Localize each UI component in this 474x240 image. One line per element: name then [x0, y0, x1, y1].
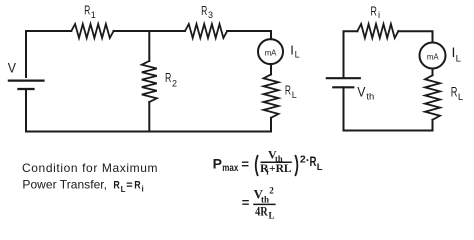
svg-text:th: th: [366, 92, 374, 103]
wire Vth negative to bottom: [343, 87, 345, 130]
svg-text:Condition for Maximum: Condition for Maximum: [22, 161, 158, 175]
svg-text:4R: 4R: [255, 204, 268, 218]
svg-text:V: V: [8, 61, 16, 76]
wire RL to bottom: [270, 118, 272, 132]
wire R3 to ammeter: [227, 31, 271, 39]
svg-text:=: =: [241, 157, 249, 172]
ammeter U2 circle: [420, 43, 446, 69]
formula open paren: [256, 155, 258, 176]
wire battery negative to bottom: [25, 89, 27, 132]
formula fraction 2 bar: [253, 203, 275, 205]
svg-text:R: R: [201, 4, 207, 18]
svg-text:L: L: [292, 90, 297, 100]
svg-text:i: i: [378, 10, 380, 21]
wire top-left from battery to R1: [26, 31, 71, 77]
svg-text:=: =: [126, 180, 132, 192]
svg-text:L: L: [317, 162, 323, 173]
svg-text:mA: mA: [265, 48, 277, 57]
formula fraction 1 bar: [261, 161, 292, 163]
battery V positive plate: [9, 79, 44, 81]
battery Vth negative plate: [333, 86, 353, 88]
wire node A to R2: [148, 31, 150, 61]
wire bottom right circuit: [344, 130, 433, 132]
svg-text:1: 1: [91, 10, 96, 20]
svg-text:R: R: [310, 153, 317, 169]
svg-text:L: L: [295, 50, 300, 60]
battery Vth positive plate: [327, 77, 360, 79]
svg-text:=: =: [242, 195, 250, 210]
wire ammeter to RL right: [432, 69, 434, 76]
svg-text:R: R: [285, 83, 291, 98]
svg-text:max: max: [222, 163, 238, 174]
wire R2 to bottom: [148, 102, 150, 132]
svg-text:P: P: [213, 155, 222, 171]
svg-text:th: th: [261, 195, 269, 205]
wire ammeter to RL: [270, 64, 272, 74]
wire Ri to ammeter right: [398, 31, 432, 42]
svg-text:mA: mA: [427, 52, 439, 61]
svg-text:L: L: [269, 210, 275, 220]
svg-text:L: L: [121, 185, 126, 194]
svg-text:2: 2: [172, 79, 177, 89]
resistor R2: [142, 61, 157, 102]
resistor RL right: [425, 75, 440, 120]
svg-text:2: 2: [269, 185, 274, 195]
svg-text:R: R: [451, 84, 458, 99]
svg-text:R: R: [134, 180, 140, 192]
svg-text:R: R: [165, 70, 171, 85]
battery V negative plate: [18, 88, 33, 90]
svg-text:R: R: [113, 180, 119, 192]
resistor Ri: [357, 24, 398, 38]
svg-text:L: L: [456, 54, 461, 65]
ammeter U1 circle: [258, 39, 283, 64]
svg-text:+RL: +RL: [269, 161, 292, 175]
formula close paren: [295, 155, 297, 176]
wire RL right to bottom: [432, 120, 434, 131]
wire R1 to R3 through node A: [114, 30, 185, 32]
wire top right circuit: Vth to Ri: [344, 31, 358, 77]
wire bottom left circuit: [26, 131, 271, 133]
svg-text:R: R: [84, 2, 90, 17]
resistor R3: [185, 24, 227, 38]
resistor R1: [71, 24, 113, 38]
svg-text:L: L: [458, 92, 463, 103]
resistor RL left: [264, 74, 279, 117]
svg-text:Power Transfer,: Power Transfer,: [22, 178, 107, 192]
svg-text:R: R: [371, 3, 377, 18]
svg-text:I: I: [290, 43, 294, 58]
svg-text:V: V: [357, 85, 365, 100]
svg-text:3: 3: [208, 10, 213, 20]
svg-text:i: i: [142, 185, 144, 194]
